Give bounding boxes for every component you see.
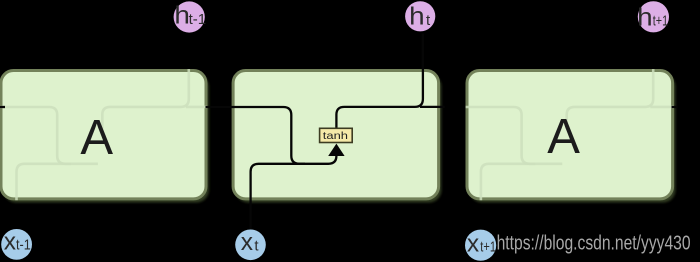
cell A2 body <box>233 71 439 199</box>
cell A1 shadow <box>4 74 209 202</box>
node h_t circle <box>405 1 435 31</box>
svg-text:A: A <box>80 111 113 165</box>
faded wire: h input <box>0 107 71 164</box>
faded wire: recurrent output <box>650 106 680 109</box>
svg-text:t+1: t+1 <box>653 12 668 29</box>
faded wire: h input <box>460 107 535 164</box>
svg-text:tanh: tanh <box>323 130 348 142</box>
wire: x_t input <box>251 153 337 232</box>
node x_t+1 circle <box>465 230 496 261</box>
wire: recurrent output to cell A3 <box>420 106 445 108</box>
faded wire: tanh output <box>567 55 654 129</box>
faded wires of cell A1 <box>0 55 216 231</box>
faded wire: x input <box>481 164 562 231</box>
cell A2 shadow <box>236 74 442 202</box>
wire: tanh output up to h_t <box>336 34 423 129</box>
node h_t-1 circle <box>174 1 205 32</box>
faded wire: x input <box>17 164 98 231</box>
svg-text:t-1: t-1 <box>16 237 31 254</box>
svg-text:x: x <box>4 229 16 256</box>
svg-text:x: x <box>241 229 253 256</box>
faded wire: tanh output <box>102 55 189 129</box>
svg-text:t-1: t-1 <box>189 11 207 28</box>
arrowhead into tanh <box>328 144 344 156</box>
node x_t-1 circle <box>1 229 32 260</box>
cell A3 shadow <box>470 74 676 202</box>
node h_t+1 circle <box>638 1 669 32</box>
wire stub: output out of cell A3 <box>672 106 678 108</box>
svg-text:h: h <box>637 3 653 31</box>
svg-text:h: h <box>409 2 425 30</box>
svg-text:https://blog.csdn.net/yyy430: https://blog.csdn.net/yyy430 <box>497 232 691 255</box>
svg-text:x: x <box>467 231 479 258</box>
wire: h input from cell A1 <box>206 107 306 164</box>
wire stub: input into cell A1 <box>0 106 5 108</box>
black wires of cell A2 <box>206 34 445 232</box>
faded wires of cell A3 <box>460 55 680 231</box>
tanh box <box>320 128 353 142</box>
faded wire: recurrent output <box>186 106 216 109</box>
cell A3 body <box>467 71 673 199</box>
svg-text:h: h <box>174 1 190 29</box>
node x_t circle <box>235 230 266 261</box>
svg-text:t+1: t+1 <box>480 238 496 255</box>
svg-text:A: A <box>547 110 580 164</box>
cell A1 body <box>1 71 206 199</box>
